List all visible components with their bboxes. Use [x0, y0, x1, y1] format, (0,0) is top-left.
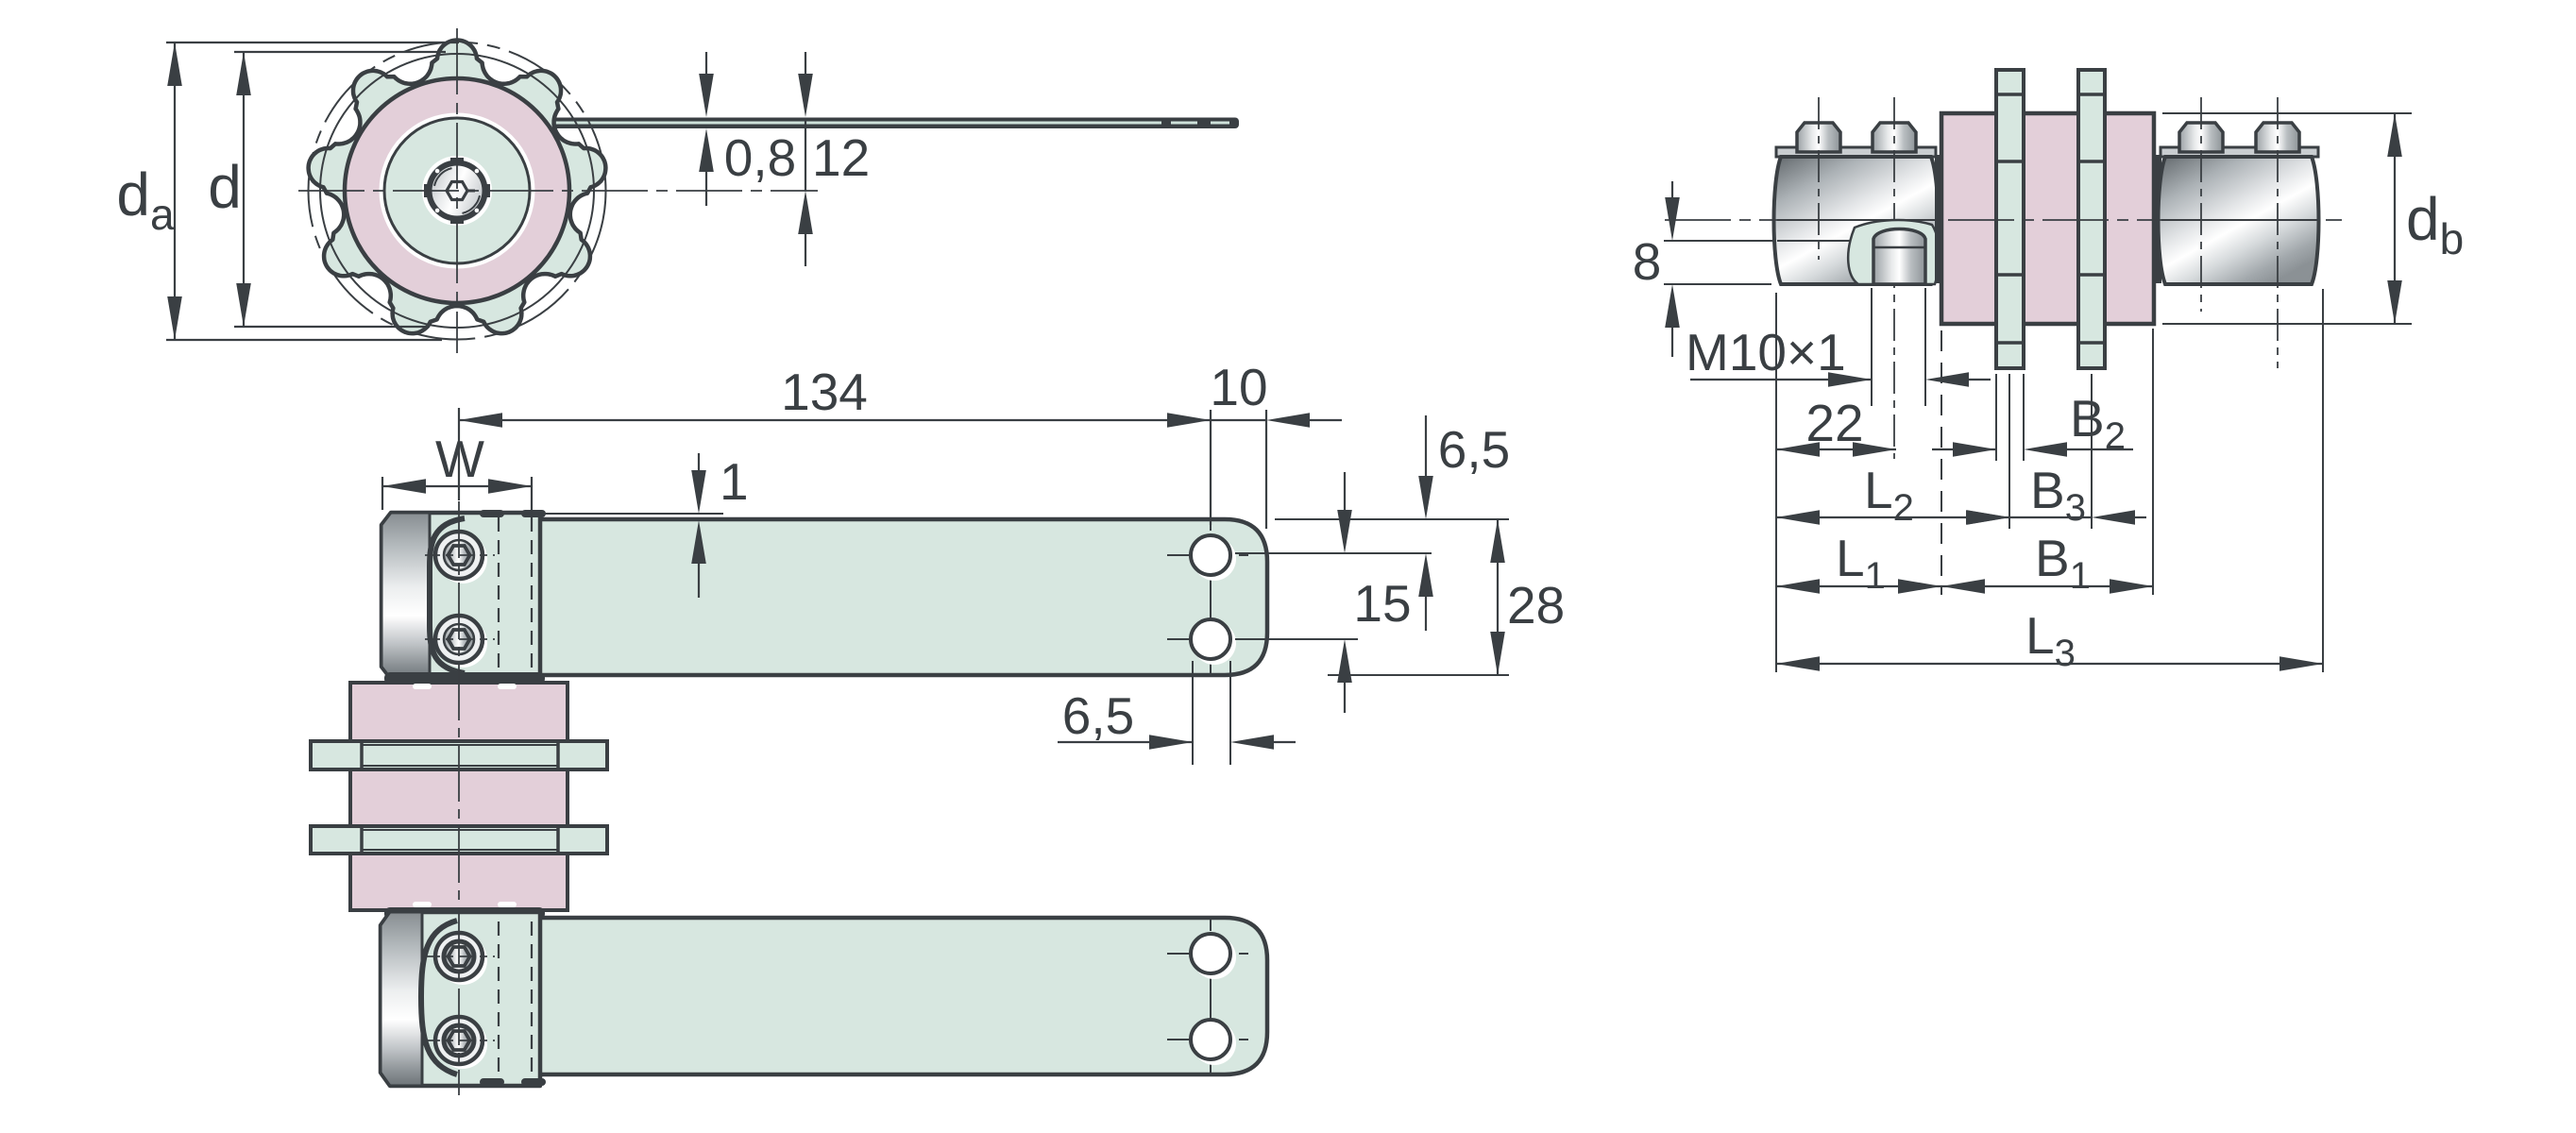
dimension 15 [1235, 472, 1412, 713]
chain band strip [525, 118, 1239, 129]
upper clamp body [381, 510, 546, 679]
clamp-hub junction top [384, 672, 545, 689]
upper strap hole 2 [1191, 619, 1236, 665]
dimension M10x1 [1686, 288, 1991, 406]
dimension 28 [1328, 519, 1565, 675]
dimension 22 [1776, 293, 1896, 672]
sprocket centerlines [298, 28, 818, 353]
hub block side view (pink) [1935, 113, 2161, 324]
left clamping collar [1774, 147, 1939, 284]
svg-text:8: 8 [1633, 232, 1662, 291]
dimension L1 [1776, 330, 1941, 597]
lower strap hole 2 [1191, 1020, 1236, 1065]
svg-text:22: 22 [1805, 394, 1863, 452]
sprocket tip reference circle (dash-dot) [309, 42, 606, 340]
svg-text:6,5: 6,5 [1438, 420, 1510, 479]
sprocket disc 1 edge (front view) [311, 741, 607, 769]
upper strap hole crosshairs [1167, 519, 1248, 674]
dimension d_a [116, 42, 459, 340]
dimension B3 [1967, 374, 2146, 529]
right collar screw B [2256, 97, 2299, 368]
svg-text:1: 1 [720, 452, 749, 511]
sprocket tension ring (pink) [345, 78, 569, 303]
clamp-hub junction bottom [384, 902, 545, 920]
dimension 134 [459, 363, 1211, 500]
sprocket disc 2 side view [2078, 70, 2105, 368]
lower clamp screw 1 [425, 933, 495, 985]
sprocket tooth body [309, 41, 606, 334]
dimension L2 [1776, 461, 2009, 529]
svg-text:0,8: 0,8 [724, 128, 796, 187]
dimension B2 [1932, 374, 2133, 461]
grub screw cutaway M10x1 [1848, 220, 1939, 284]
dimension W [382, 430, 532, 510]
lower strap hole 1 [1191, 934, 1236, 979]
dimension d [208, 52, 446, 327]
dimension 6,5 bottom (hole dia) [1058, 661, 1296, 765]
dimension 10 [1210, 358, 1342, 529]
dimension 0,8 (band thickness) [699, 52, 796, 206]
dimension 6,5 top [1235, 415, 1510, 631]
lower clamp screw 2 [425, 1017, 495, 1069]
sprocket disc 1 side view [1996, 70, 2024, 368]
upper clamp screw 1 [425, 532, 495, 583]
lower strap hole crosshairs [1167, 920, 1248, 1074]
lower strap [491, 918, 1267, 1074]
upper strap hole 1 [1191, 535, 1236, 581]
svg-text:d: d [208, 153, 242, 221]
dimension d_b [2162, 113, 2464, 324]
clamp centerline [458, 501, 460, 1095]
sprocket pitch circle d [320, 54, 594, 328]
dimension 1 [540, 452, 749, 598]
svg-text:15: 15 [1353, 574, 1411, 633]
dimension B1 [1941, 329, 2153, 597]
left collar screw B [1873, 97, 1916, 459]
sprocket hub with set screw [422, 156, 492, 226]
sprocket disc 2 edge (front view) [311, 826, 607, 854]
shaft centerline [1665, 219, 2342, 221]
upper clamp screw 2 [425, 616, 495, 668]
upper clamp hidden lines [499, 517, 532, 676]
svg-text:6,5: 6,5 [1062, 686, 1134, 745]
lower clamp body [381, 912, 546, 1086]
hub block (pink) front view [350, 683, 568, 910]
svg-text:134: 134 [781, 363, 868, 421]
right clamping collar [2159, 147, 2319, 284]
dimension 12 (band offset) [798, 52, 870, 266]
svg-text:28: 28 [1507, 576, 1565, 634]
dimension L3 [1776, 289, 2323, 674]
dimension 8 [1633, 181, 1775, 357]
svg-text:10: 10 [1210, 358, 1267, 416]
left collar screw A [1797, 97, 1840, 260]
upper strap [415, 519, 1267, 675]
lower clamp hidden lines [499, 922, 532, 1073]
svg-text:12: 12 [812, 128, 870, 187]
svg-text:W: W [435, 430, 484, 488]
right collar screw A [2179, 97, 2223, 312]
svg-text:M10×1: M10×1 [1686, 323, 1846, 381]
